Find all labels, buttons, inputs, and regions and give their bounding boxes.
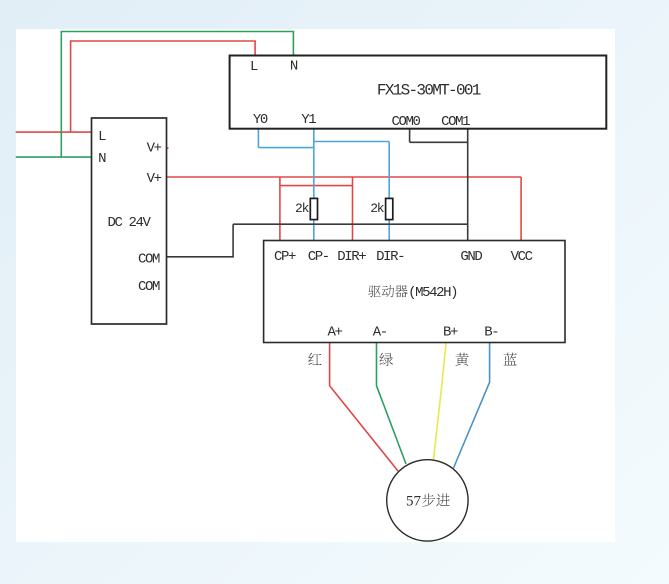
wire green into DC24V N: [16, 156, 92, 158]
wire blue Y1/CP- vertical: [313, 129, 315, 241]
label 黄 (yellow wire): [455, 353, 468, 366]
resistor R1 2k on CP- line: [310, 198, 317, 219]
wire blue down to DIR-: [388, 142, 390, 241]
svg-text:COM1: COM1: [441, 114, 470, 130]
svg-text:GND: GND: [460, 249, 482, 265]
wire black COM1 down to GND: [467, 129, 469, 241]
wire green drop to PLC N: [292, 32, 294, 56]
wire blue Y0 horizontal: [258, 147, 314, 149]
wire red mains vertical: [70, 41, 72, 132]
wire red link CP+/DIR+: [280, 185, 353, 187]
svg-text:L: L: [250, 59, 258, 75]
label 红 (red wire): [308, 353, 321, 365]
wire red A+ to motor: [330, 343, 398, 472]
wire red mains top horizontal: [70, 40, 256, 42]
label 绿 (green wire): [379, 353, 393, 366]
wire black COM0 to COM1 net: [410, 141, 468, 143]
motor circle 57步进: [387, 460, 468, 541]
wire blue horizontal to DIR- branch: [314, 141, 389, 143]
wire green A- to motor: [377, 343, 407, 465]
svg-text:COM0: COM0: [391, 114, 420, 130]
svg-text:COM: COM: [138, 252, 160, 268]
wire red down to CP+: [279, 177, 281, 241]
wire red V+ down to VCC: [520, 177, 522, 241]
svg-text:V+: V+: [147, 141, 162, 157]
svg-text:Y0: Y0: [253, 112, 268, 128]
svg-text:N: N: [290, 59, 298, 75]
svg-text:V+: V+: [147, 171, 162, 187]
wire black COM to GND net: [233, 223, 468, 225]
wire red down to DIR+: [352, 177, 354, 241]
svg-text:(M542H): (M542H): [408, 285, 457, 301]
wire black from COM0: [409, 129, 411, 143]
wire black from DC24V COM: [167, 256, 234, 258]
svg-text:L: L: [98, 129, 106, 145]
svg-text:COM: COM: [138, 279, 160, 295]
wire red V+ bus horizontal: [167, 176, 522, 178]
driver title 驱动器(M542H): [368, 285, 380, 297]
svg-text:DIR-: DIR-: [376, 249, 404, 265]
svg-text:B-: B-: [484, 325, 498, 341]
svg-text:A-: A-: [373, 325, 387, 341]
svg-text:A+: A+: [327, 325, 342, 341]
wire blue B- to motor: [454, 343, 490, 469]
wire green mains top horizontal: [61, 31, 295, 33]
resistor R2 2k on DIR- line: [386, 198, 393, 219]
svg-text:2k: 2k: [295, 201, 310, 216]
DC 24V power supply box: [92, 118, 167, 324]
svg-text:B+: B+: [443, 325, 458, 341]
svg-text:DC 24V: DC 24V: [107, 215, 151, 231]
wire black COM riser: [232, 224, 234, 257]
svg-text:FX1S-30MT-001: FX1S-30MT-001: [377, 81, 481, 99]
white drawing area: [16, 29, 615, 542]
wire blue from Y0: [257, 129, 259, 148]
wire green mains vertical: [60, 32, 62, 158]
label 蓝 (blue wire): [504, 353, 517, 366]
svg-text:N: N: [98, 151, 106, 167]
wire red stub at DC24V V+ top: [162, 147, 169, 149]
svg-text:Y1: Y1: [301, 112, 316, 128]
wire red into DC24V L: [16, 131, 92, 133]
svg-text:2k: 2k: [370, 201, 385, 216]
svg-text:CP-: CP-: [308, 249, 329, 265]
svg-text:57: 57: [406, 494, 422, 510]
wire red drop to PLC L: [254, 41, 256, 56]
PLC FX1S-30MT-001 box: [230, 56, 607, 129]
svg-text:VCC: VCC: [511, 249, 533, 265]
wire yellow B+ to motor: [433, 343, 446, 461]
driver M542H box: [264, 241, 565, 343]
svg-text:DIR+: DIR+: [337, 249, 366, 265]
svg-text:CP+: CP+: [274, 249, 296, 265]
